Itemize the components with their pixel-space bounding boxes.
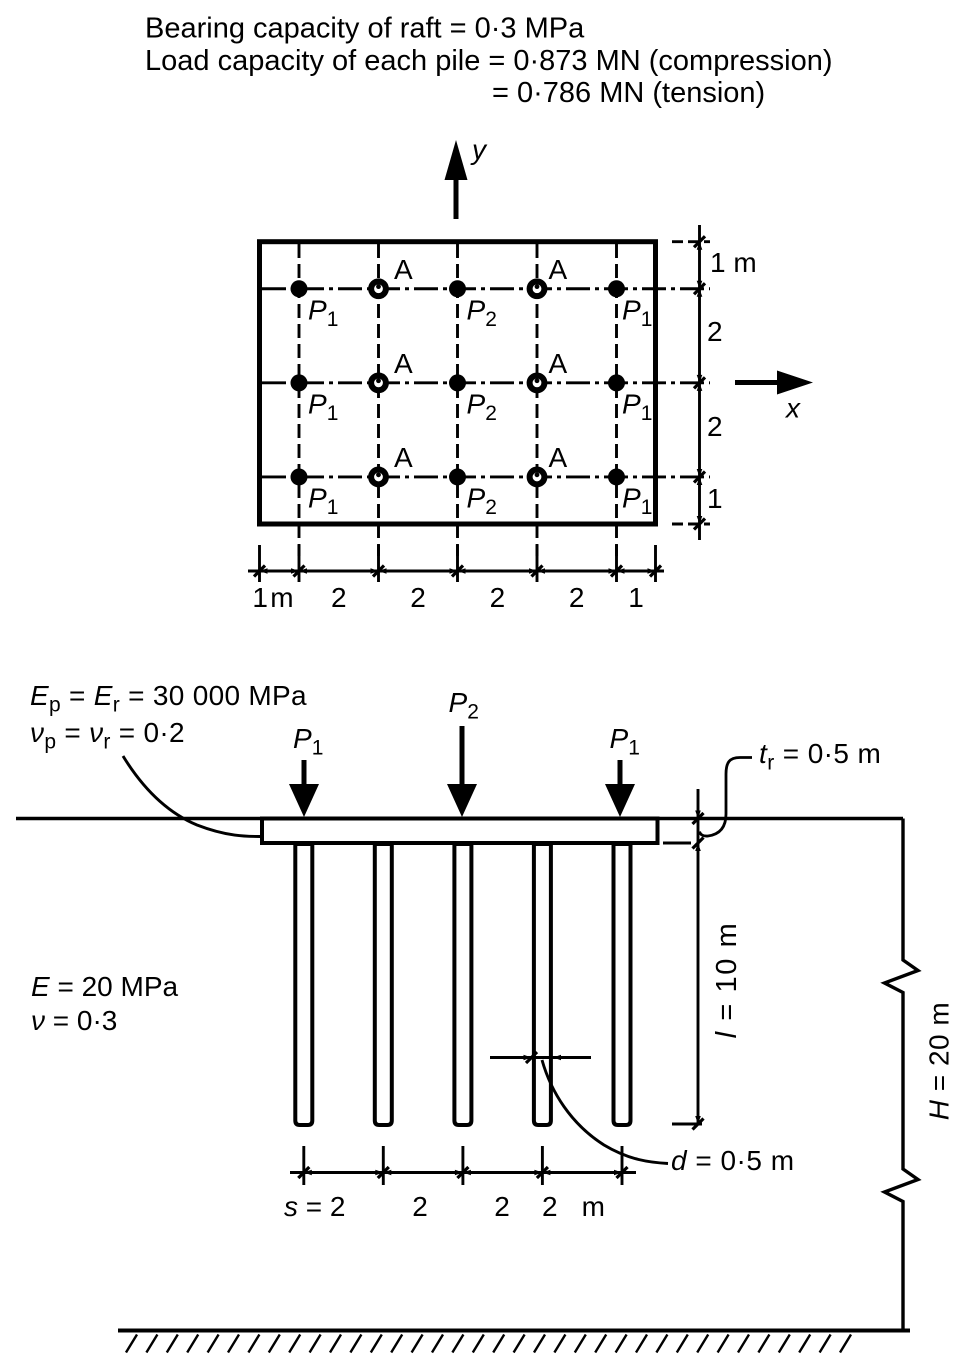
svg-text:Load capacity of each pile = 0: Load capacity of each pile = 0·873 MN (c…	[145, 45, 833, 77]
svg-text:2: 2	[707, 316, 723, 347]
svg-text:A: A	[549, 254, 568, 285]
load arrow P1 left	[289, 760, 319, 817]
l dim dash bottom	[672, 1123, 702, 1126]
s dim tick 5	[621, 1146, 624, 1185]
pile A circle row2 col2	[371, 375, 386, 390]
svg-text:A: A	[394, 348, 413, 379]
bottom dim tick 5	[536, 545, 539, 582]
right dim tick bottom	[672, 523, 710, 526]
bottom dimension line	[248, 570, 664, 573]
svg-text:s = 2: s = 2	[284, 1191, 345, 1222]
svg-text:ν = 0·3: ν = 0·3	[31, 1005, 117, 1036]
pile dot row2 col3	[449, 374, 466, 391]
svg-text:x: x	[784, 393, 801, 424]
d marker left arrow	[524, 1055, 532, 1061]
s dim arrows 5	[614, 1170, 622, 1176]
l dim slash bottom	[693, 1119, 704, 1130]
raft plan outline	[260, 242, 656, 524]
bottom dim arrows 4	[450, 568, 466, 574]
d marker right arrow	[553, 1055, 561, 1061]
right dim arrows 1	[697, 242, 703, 250]
bottom dim slash 3	[373, 566, 384, 577]
s dim tick 4	[541, 1146, 544, 1185]
column centreline 5	[615, 244, 618, 556]
rigid base hatching	[126, 1335, 851, 1353]
load arrow P2 centre	[447, 726, 477, 817]
pile dot row2 col1	[291, 374, 308, 391]
right dim slash 1	[694, 236, 705, 247]
svg-text:2: 2	[707, 411, 723, 442]
d marker slash	[526, 1052, 537, 1063]
tr dimension line	[697, 789, 700, 1124]
raft elevation	[262, 819, 658, 844]
pile dot row1 col1	[291, 280, 308, 297]
pile dot row3 col5	[608, 468, 625, 485]
pile 2 elevation	[375, 844, 392, 1125]
bottom dim slash 6	[611, 566, 622, 577]
svg-text:y: y	[470, 134, 488, 165]
bottom dim tick 7	[654, 545, 657, 582]
pile dot row1 col5	[608, 280, 625, 297]
s dim arrows 2	[375, 1170, 391, 1176]
svg-text:A: A	[394, 442, 413, 473]
pile 5 elevation	[614, 844, 631, 1125]
s dim tick 1	[302, 1146, 305, 1185]
load arrow P1 right	[605, 760, 635, 817]
right dim arrows 2	[697, 281, 703, 297]
tr dim arrow up	[695, 843, 701, 851]
pile 1 elevation	[295, 844, 312, 1125]
svg-text:2: 2	[410, 582, 426, 613]
svg-text:1: 1	[707, 483, 723, 514]
y-axis arrow	[445, 140, 468, 219]
ground surface line	[16, 817, 903, 820]
bottom dim slash 2	[294, 566, 305, 577]
svg-text:Bearing capacity of raft = 0·3: Bearing capacity of raft = 0·3 MPa	[145, 13, 585, 45]
column centreline 3	[456, 244, 459, 556]
d leader	[542, 1060, 668, 1164]
right dim slash 2	[694, 283, 705, 294]
tr dim arrow down	[695, 811, 701, 819]
column centreline 1	[298, 244, 301, 556]
svg-text:E = 20 MPa: E = 20 MPa	[31, 971, 179, 1002]
right dim arrows 5	[697, 516, 703, 524]
l dim arrow down	[695, 1116, 701, 1124]
column centreline 2	[377, 244, 380, 556]
bottom dim arrows 6	[609, 568, 625, 574]
x-axis arrow	[735, 371, 813, 395]
svg-text:2: 2	[490, 582, 506, 613]
right dim arrows 4	[697, 469, 703, 485]
bottom dim tick 3	[377, 545, 380, 582]
svg-text:1 m: 1 m	[710, 247, 757, 278]
bottom dim arrows 2	[291, 568, 307, 574]
right dim tick top	[672, 240, 710, 243]
pile A circle row2 col4	[530, 375, 545, 390]
pile dot row2 col5	[608, 374, 625, 391]
svg-text:2: 2	[331, 582, 347, 613]
svg-text:1: 1	[628, 582, 644, 613]
bottom dim tick 1	[258, 545, 261, 582]
bottom dim arrows 5	[529, 568, 545, 574]
H line with breaks	[885, 819, 919, 1332]
column centreline 4	[536, 244, 539, 556]
svg-text:l = 10 m: l = 10 m	[711, 922, 743, 1039]
pile 4 elevation	[534, 844, 551, 1125]
s dim arrows 4	[534, 1170, 550, 1176]
bottom dim slash 4	[452, 566, 463, 577]
svg-text:2: 2	[494, 1191, 510, 1222]
s dim tick 3	[461, 1146, 464, 1185]
pile A circle row3 col4	[530, 470, 545, 485]
s dim arrows 1	[304, 1170, 312, 1176]
bottom dim arrows 1	[260, 568, 268, 574]
s dim arrows 3	[455, 1170, 471, 1176]
s dim slash 1	[298, 1167, 309, 1178]
bottom dim tick 6	[615, 545, 618, 582]
bottom dim arrows 7	[648, 568, 656, 574]
svg-text:H = 20 m: H = 20 m	[924, 1002, 955, 1120]
svg-text:2: 2	[412, 1191, 428, 1222]
right dim slash 4	[694, 471, 705, 482]
leader from raft properties to raft	[123, 756, 262, 837]
bottom dim slash 7	[650, 566, 661, 577]
svg-text:= 0·786 MN (tension): = 0·786 MN (tension)	[492, 77, 765, 109]
s dim slash 4	[537, 1167, 548, 1178]
bottom dim slash 5	[532, 566, 543, 577]
rigid base line	[118, 1329, 910, 1333]
pile A circle row1 col4	[530, 281, 545, 296]
s dim slash 3	[457, 1167, 468, 1178]
s dim slash 5	[617, 1167, 628, 1178]
bottom dim arrows 3	[371, 568, 387, 574]
pile dot row3 col1	[291, 468, 308, 485]
pile dot row3 col3	[449, 468, 466, 485]
tr leader	[700, 758, 753, 837]
row centreline 2	[262, 381, 710, 384]
right dim slash 5	[694, 519, 705, 530]
row centreline 1	[262, 287, 710, 290]
right dim slash 3	[694, 377, 705, 388]
right dimension line	[698, 225, 701, 540]
pile A circle row3 col2	[371, 470, 386, 485]
bottom dim tick 2	[298, 545, 301, 582]
svg-text:2: 2	[569, 582, 585, 613]
d marker left line	[490, 1056, 591, 1059]
right dim arrows 3	[697, 375, 703, 391]
s dim slash 2	[378, 1167, 389, 1178]
bottom dim tick 4	[456, 545, 459, 582]
svg-text:A: A	[394, 254, 413, 285]
row centreline 3	[262, 476, 710, 479]
svg-text:d = 0·5 m: d = 0·5 m	[671, 1145, 795, 1176]
s dim tick 2	[382, 1146, 385, 1185]
pile dot row1 col3	[449, 280, 466, 297]
tr dim slash top	[693, 813, 704, 824]
svg-text:A: A	[549, 442, 568, 473]
tr dim dash	[663, 842, 691, 845]
s dimension line	[290, 1171, 636, 1174]
tr dim slash bottom	[693, 838, 704, 849]
pile 3 elevation	[454, 844, 471, 1125]
svg-text:A: A	[549, 348, 568, 379]
bottom dim slash 1	[254, 566, 265, 577]
pile A circle row1 col2	[371, 281, 386, 296]
svg-text:1 m: 1 m	[252, 582, 293, 613]
